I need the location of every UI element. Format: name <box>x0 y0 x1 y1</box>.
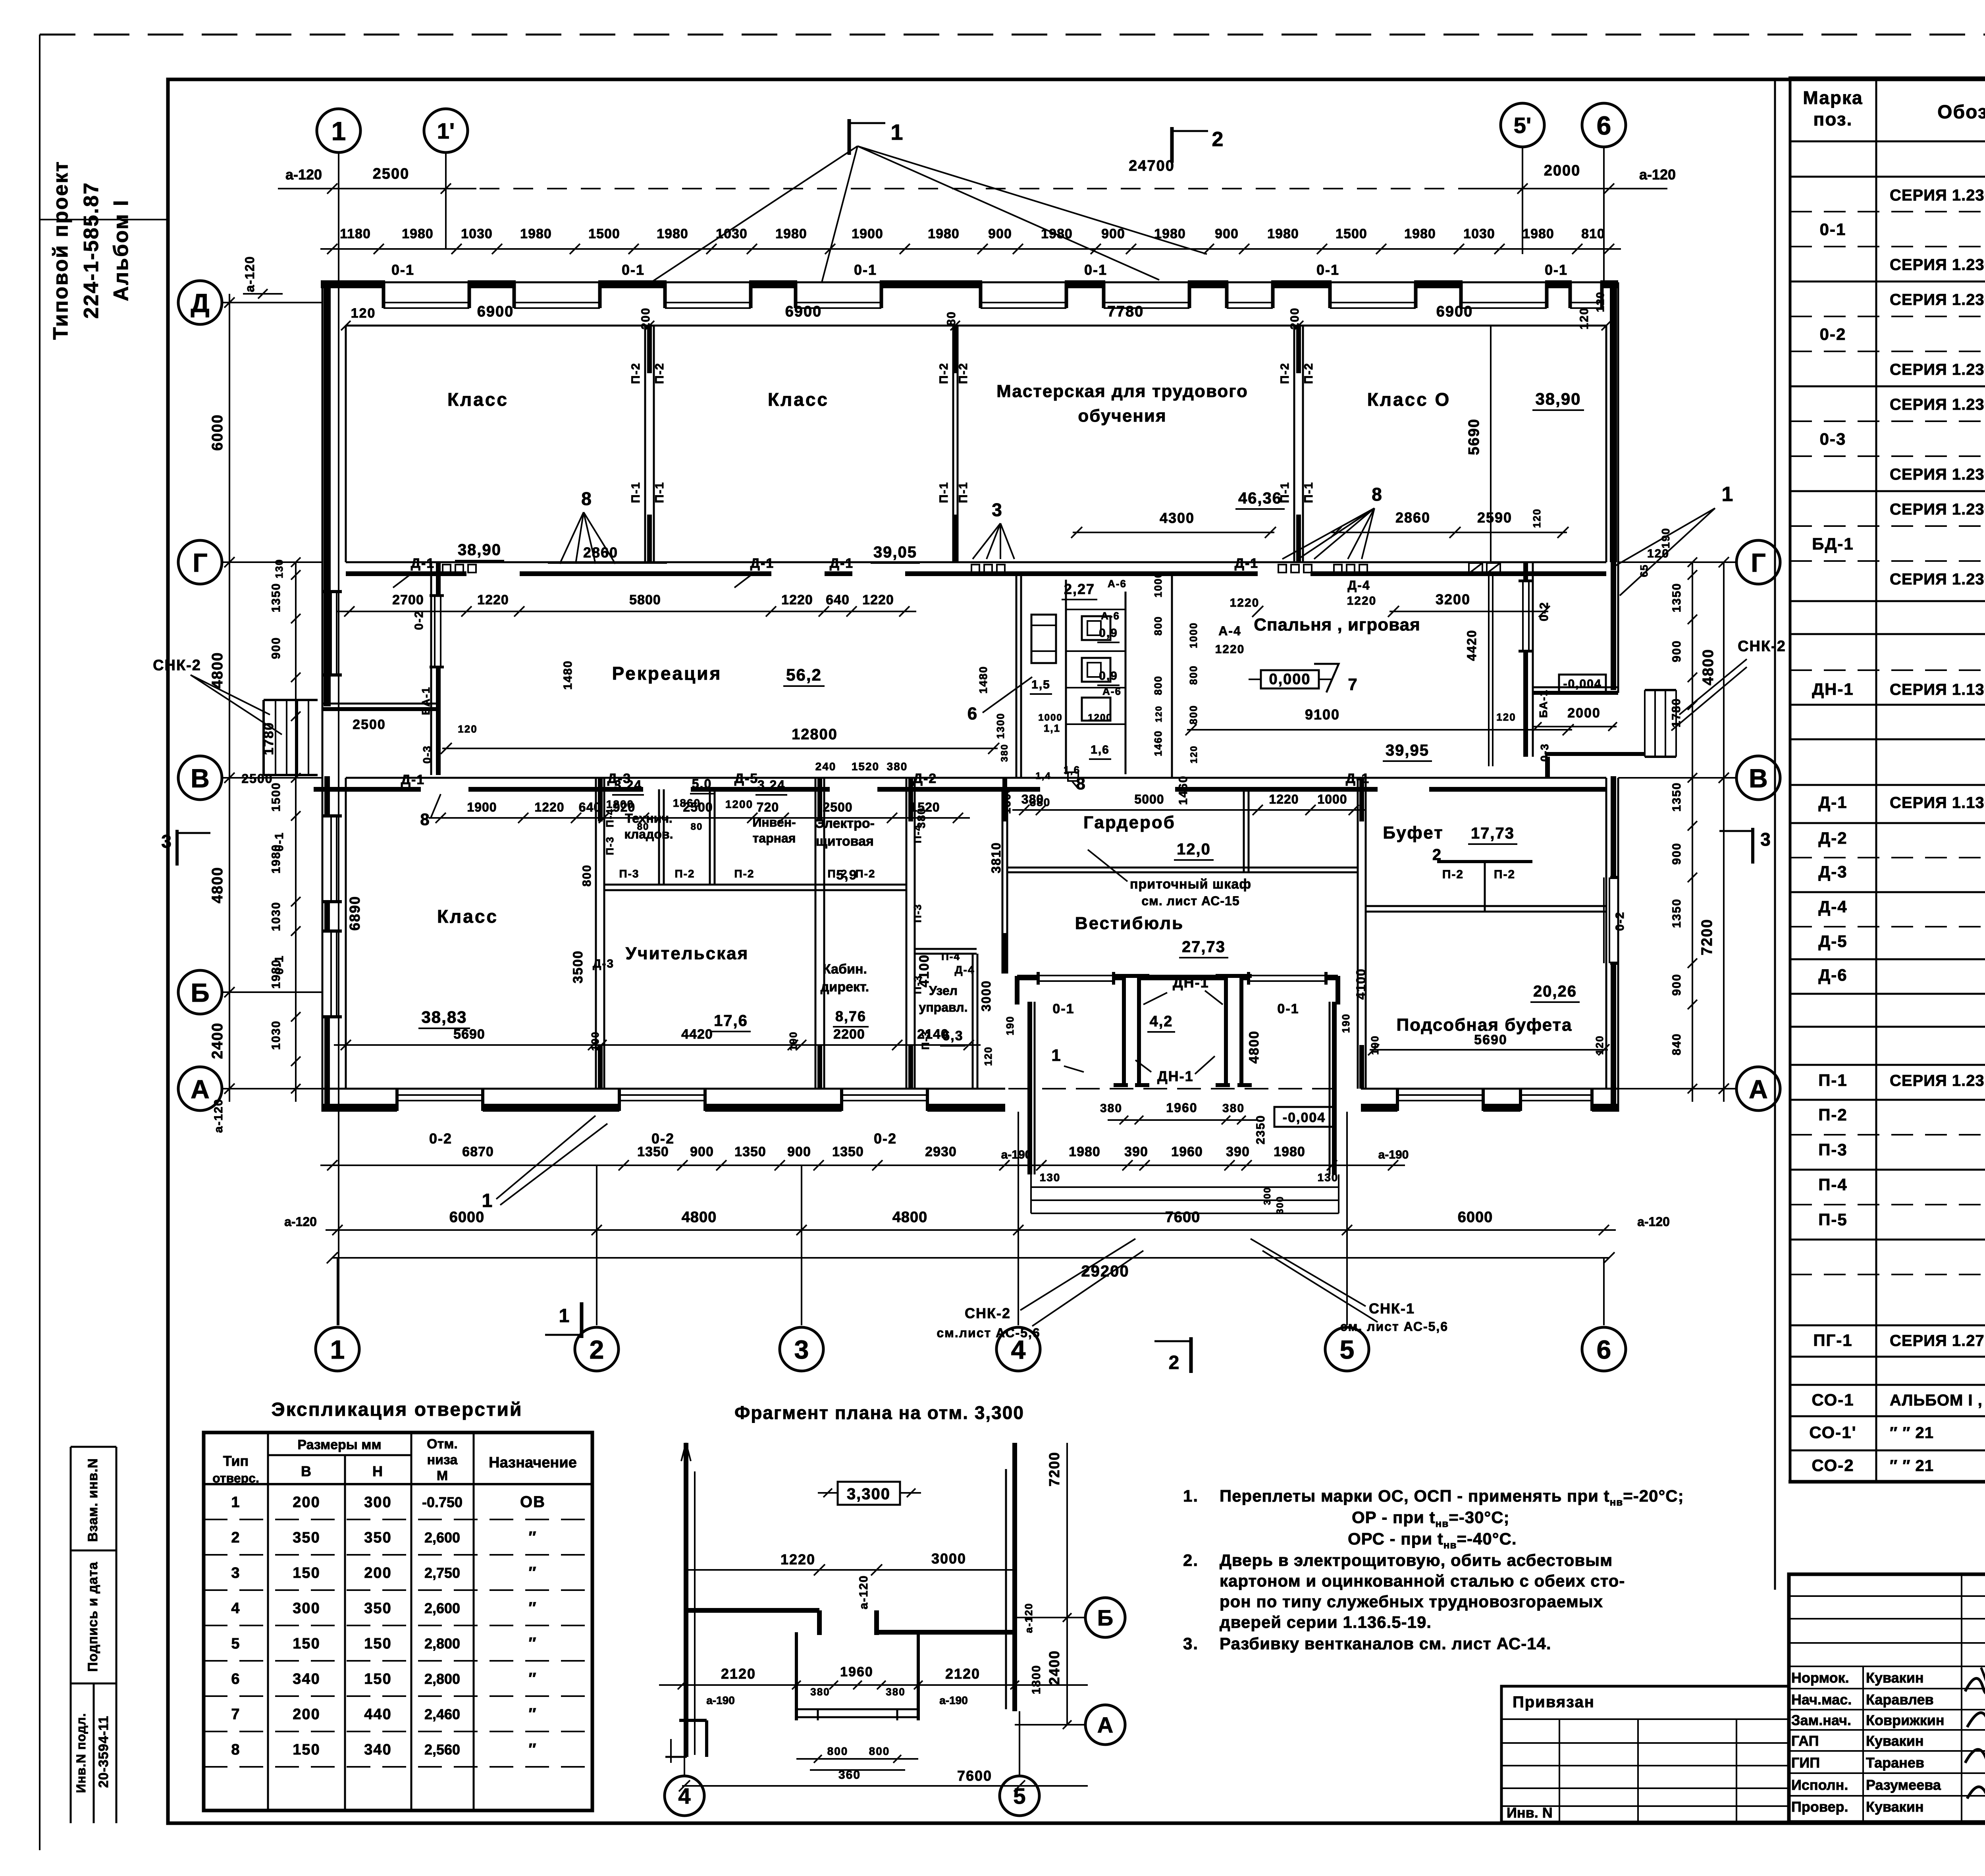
svg-text:190: 190 <box>1340 1013 1352 1033</box>
svg-text:а-120: а-120 <box>1639 166 1676 183</box>
svg-text:2,800: 2,800 <box>424 1635 460 1652</box>
svg-text:см. лист АС-15: см. лист АС-15 <box>1141 894 1239 908</box>
svg-text:Д-2: Д-2 <box>1818 829 1847 847</box>
svg-text:БА-1: БА-1 <box>1537 689 1549 718</box>
svg-text:1980: 1980 <box>1267 226 1299 241</box>
svg-text:3500: 3500 <box>570 950 586 983</box>
svg-text:Кувакин: Кувакин <box>1866 1733 1924 1749</box>
svg-text:120: 120 <box>1531 508 1543 528</box>
svg-text:М: М <box>437 1468 448 1483</box>
svg-text:1960: 1960 <box>840 1664 873 1679</box>
svg-text:Нач.мас.: Нач.мас. <box>1791 1691 1852 1708</box>
svg-text:3000: 3000 <box>931 1550 966 1567</box>
svg-text:П-2: П-2 <box>827 868 848 880</box>
svg-text:директ.: директ. <box>821 979 869 995</box>
svg-text:СЕРИЯ 1.236-6 В.1 Ч.1,2: СЕРИЯ 1.236-6 В.1 Ч.1,2 <box>1890 396 1985 413</box>
svg-text:1300: 1300 <box>1000 786 1013 814</box>
svg-text:800: 800 <box>1187 665 1199 684</box>
svg-text:0-1: 0-1 <box>1084 262 1107 278</box>
svg-text:6: 6 <box>231 1671 240 1687</box>
svg-text:3: 3 <box>1760 829 1771 850</box>
svg-text:20,26: 20,26 <box>1533 983 1577 1000</box>
svg-text:Вестибюль: Вестибюль <box>1075 914 1184 933</box>
svg-text:1000: 1000 <box>1152 571 1164 598</box>
svg-text:″: ″ <box>528 1670 537 1687</box>
svg-text:120: 120 <box>1578 307 1591 330</box>
svg-text:12800: 12800 <box>792 726 838 743</box>
svg-text:СО-1': СО-1' <box>1809 1423 1856 1442</box>
svg-text:СЕРИЯ 1.271-4: СЕРИЯ 1.271-4 <box>1890 1332 1985 1350</box>
svg-text:1980: 1980 <box>928 226 960 241</box>
svg-text:В: В <box>1749 764 1768 793</box>
svg-text:4,2: 4,2 <box>1150 1013 1173 1030</box>
svg-text:3,300: 3,300 <box>847 1485 890 1503</box>
svg-text:9100: 9100 <box>1305 706 1340 723</box>
svg-text:1980: 1980 <box>1404 226 1436 241</box>
svg-text:2860: 2860 <box>583 544 618 561</box>
svg-text:Тип: Тип <box>223 1453 249 1469</box>
svg-text:Класс: Класс <box>768 389 829 410</box>
svg-text:2930: 2930 <box>925 1144 957 1159</box>
svg-text:а-120: а-120 <box>284 1215 317 1229</box>
svg-text:1500: 1500 <box>1336 226 1367 241</box>
svg-text:1350: 1350 <box>270 583 283 613</box>
svg-text:картоном и оцинкованной ста: картоном и оцинкованной сталью с обеих с… <box>1220 1571 1625 1590</box>
svg-text:1030: 1030 <box>461 226 493 241</box>
svg-text:2: 2 <box>231 1529 240 1546</box>
svg-text:Д-5: Д-5 <box>734 771 758 786</box>
svg-text:Д-1: Д-1 <box>1235 556 1258 571</box>
svg-text:2860: 2860 <box>1395 509 1430 526</box>
svg-text:Рекреация: Рекреация <box>612 663 722 684</box>
svg-text:0-1: 0-1 <box>1545 262 1568 278</box>
svg-text:8,76: 8,76 <box>835 1008 866 1024</box>
svg-text:120: 120 <box>1189 745 1199 764</box>
svg-text:0-1: 0-1 <box>1052 1001 1074 1016</box>
svg-text:3: 3 <box>231 1565 240 1581</box>
svg-text:А-4: А-4 <box>1218 624 1241 638</box>
svg-text:Разумеева: Разумеева <box>1866 1777 1941 1793</box>
svg-text:840: 840 <box>1670 1033 1683 1055</box>
svg-text:2,600: 2,600 <box>424 1529 460 1546</box>
svg-text:150: 150 <box>293 1741 320 1758</box>
svg-text:поз.: поз. <box>1813 109 1853 129</box>
svg-text:СО-1: СО-1 <box>1812 1390 1854 1409</box>
svg-text:1: 1 <box>1722 483 1734 506</box>
svg-text:39,05: 39,05 <box>873 544 917 561</box>
svg-text:1460: 1460 <box>1152 730 1164 756</box>
svg-text:1000: 1000 <box>1317 792 1347 806</box>
svg-text:900: 900 <box>1670 974 1683 996</box>
svg-text:Д-3: Д-3 <box>1818 862 1847 881</box>
svg-text:а-190: а-190 <box>1001 1148 1032 1161</box>
svg-text:П-3: П-3 <box>604 836 616 855</box>
svg-text:1350: 1350 <box>1670 782 1683 812</box>
svg-text:2: 2 <box>590 1335 604 1364</box>
svg-text:800: 800 <box>580 864 594 887</box>
svg-text:4800: 4800 <box>892 1209 928 1226</box>
svg-text:2: 2 <box>1212 128 1224 151</box>
svg-text:46,36: 46,36 <box>1238 490 1282 507</box>
svg-text:6870: 6870 <box>462 1144 494 1159</box>
svg-text:1780: 1780 <box>261 722 276 755</box>
svg-text:240: 240 <box>815 760 836 773</box>
svg-text:1520: 1520 <box>852 760 879 773</box>
svg-text:150: 150 <box>364 1671 391 1687</box>
svg-text:5': 5' <box>1514 113 1531 138</box>
svg-text:0-1: 0-1 <box>391 262 414 278</box>
svg-text:АЛЬБОМ I , ЛИСТ 21: АЛЬБОМ I , ЛИСТ 21 <box>1890 1392 1985 1409</box>
svg-text:0,9: 0,9 <box>1099 669 1118 683</box>
svg-text:7600: 7600 <box>1165 1209 1201 1226</box>
svg-text:5,0: 5,0 <box>692 777 712 791</box>
svg-text:3: 3 <box>161 831 172 852</box>
svg-text:а-190: а-190 <box>1378 1148 1409 1161</box>
svg-text:5690: 5690 <box>1466 418 1482 455</box>
svg-text:190: 190 <box>589 1031 601 1051</box>
svg-text:Размеры мм: Размеры мм <box>297 1437 381 1452</box>
svg-text:П-4: П-4 <box>912 824 923 843</box>
svg-text:Кабин.: Кабин. <box>823 962 867 977</box>
svg-text:Г: Г <box>1751 548 1765 577</box>
svg-text:1960: 1960 <box>1171 1144 1203 1159</box>
svg-text:П-2: П-2 <box>855 868 875 880</box>
svg-text:0-1: 0-1 <box>854 262 877 278</box>
svg-text:4420: 4420 <box>681 1027 713 1042</box>
svg-text:150: 150 <box>293 1565 320 1581</box>
svg-text:3,24: 3,24 <box>757 778 785 792</box>
svg-text:П-3: П-3 <box>619 868 639 880</box>
svg-text:Г: Г <box>193 548 207 577</box>
svg-text:1,6: 1,6 <box>1091 743 1110 756</box>
svg-text:ОВ: ОВ <box>520 1493 545 1511</box>
svg-text:1000: 1000 <box>1038 712 1062 723</box>
svg-text:8: 8 <box>420 810 430 829</box>
svg-text:В: В <box>301 1463 312 1479</box>
svg-text:ДН-1: ДН-1 <box>1173 974 1209 991</box>
svg-text:1030: 1030 <box>270 902 283 931</box>
svg-text:1,1: 1,1 <box>1044 722 1060 734</box>
svg-text:П-3: П-3 <box>912 904 923 923</box>
svg-text:П-1: П-1 <box>1818 1071 1848 1089</box>
svg-text:1220: 1220 <box>862 592 894 607</box>
svg-text:440: 440 <box>364 1706 391 1723</box>
svg-text:ОР - при tнв=-30°С;: ОР - при tнв=-30°С; <box>1352 1508 1510 1529</box>
svg-text:Взам. инв.N: Взам. инв.N <box>85 1458 100 1542</box>
svg-text:А: А <box>191 1074 210 1104</box>
svg-text:Д-1: Д-1 <box>750 556 774 571</box>
svg-text:Д-4: Д-4 <box>1347 578 1370 592</box>
svg-text:340: 340 <box>364 1741 391 1758</box>
svg-text:200: 200 <box>364 1565 391 1581</box>
svg-text:1,5: 1,5 <box>1031 678 1050 691</box>
svg-text:2,460: 2,460 <box>424 1706 460 1722</box>
svg-text:120: 120 <box>351 306 376 321</box>
svg-text:130: 130 <box>1318 1171 1339 1184</box>
svg-text:Класс: Класс <box>447 389 509 410</box>
svg-text:2350: 2350 <box>1254 1115 1267 1145</box>
svg-text:1200: 1200 <box>725 798 753 810</box>
svg-text:Д-1: Д-1 <box>411 556 435 571</box>
svg-text:0-2: 0-2 <box>1613 911 1627 931</box>
svg-text:380: 380 <box>999 744 1010 762</box>
svg-text:2200: 2200 <box>833 1027 865 1042</box>
svg-text:24700: 24700 <box>1129 158 1175 174</box>
svg-text:″: ″ <box>528 1599 537 1617</box>
svg-text:4100: 4100 <box>1354 968 1368 999</box>
svg-text:Спальня , игровая: Спальня , игровая <box>1254 615 1420 634</box>
svg-text:а-120: а-120 <box>212 1099 225 1133</box>
svg-text:3.: 3. <box>1183 1634 1199 1653</box>
svg-text:380: 380 <box>1030 796 1051 808</box>
svg-text:20-3594-11: 20-3594-11 <box>96 1716 111 1788</box>
svg-text:Д-3: Д-3 <box>607 771 631 786</box>
svg-text:-0,004: -0,004 <box>1563 677 1601 690</box>
svg-text:Привязан: Привязан <box>1513 1693 1595 1711</box>
svg-text:12,0: 12,0 <box>1177 841 1211 858</box>
svg-text:6: 6 <box>1597 111 1611 140</box>
svg-text:130: 130 <box>273 559 285 578</box>
svg-text:СНК-1: СНК-1 <box>1369 1300 1415 1317</box>
svg-text:Д: Д <box>191 288 209 318</box>
svg-text:2500: 2500 <box>373 166 410 182</box>
svg-text:17,73: 17,73 <box>1471 825 1515 842</box>
svg-text:СЕРИЯ 1.236-6 В.1 Ч.1,2: СЕРИЯ 1.236-6 В.1 Ч.1,2 <box>1890 501 1985 518</box>
svg-text:4: 4 <box>678 1783 690 1809</box>
svg-text:тарная: тарная <box>753 831 796 845</box>
svg-text:″: ″ <box>528 1635 537 1652</box>
svg-text:900: 900 <box>270 637 283 659</box>
svg-text:приточный шкаф: приточный шкаф <box>1130 877 1251 892</box>
svg-text:1: 1 <box>890 120 904 145</box>
svg-text:а-190: а-190 <box>939 1694 968 1706</box>
svg-text:-0,004: -0,004 <box>1283 1110 1326 1125</box>
svg-text:П-2: П-2 <box>937 362 950 384</box>
svg-text:0-2: 0-2 <box>1820 325 1846 343</box>
svg-text:80: 80 <box>945 311 958 326</box>
svg-text:7200: 7200 <box>1699 919 1715 956</box>
svg-text:3: 3 <box>794 1335 809 1364</box>
svg-text:Инв.N подл.: Инв.N подл. <box>74 1713 88 1793</box>
svg-text:1: 1 <box>231 1494 240 1511</box>
svg-text:1220: 1220 <box>1215 643 1245 656</box>
svg-text:1350: 1350 <box>734 1144 766 1159</box>
svg-text:5690: 5690 <box>1474 1032 1507 1047</box>
svg-text:300: 300 <box>293 1600 320 1617</box>
svg-text:2: 2 <box>1169 1352 1180 1373</box>
svg-text:1900: 1900 <box>467 800 497 814</box>
svg-text:2: 2 <box>1432 846 1442 864</box>
svg-text:0-1: 0-1 <box>622 262 645 278</box>
svg-text:П-2: П-2 <box>653 362 666 384</box>
svg-text:0,000: 0,000 <box>1269 671 1310 688</box>
svg-text:1900: 1900 <box>852 226 883 241</box>
svg-text:900: 900 <box>690 1144 714 1159</box>
svg-text:см. лист АС-5,6: см. лист АС-5,6 <box>1340 1319 1448 1334</box>
svg-text:П-3: П-3 <box>912 975 923 994</box>
svg-text:1480: 1480 <box>977 666 989 694</box>
svg-text:рон по типу служебных труд: рон по типу служебных трудновозгораемых <box>1220 1592 1603 1611</box>
svg-text:Марка: Марка <box>1803 87 1863 108</box>
svg-text:2.: 2. <box>1183 1551 1199 1569</box>
svg-text:1220: 1220 <box>477 592 509 607</box>
svg-text:900: 900 <box>787 1144 811 1159</box>
svg-text:1980: 1980 <box>402 226 434 241</box>
svg-text:1,4: 1,4 <box>1035 771 1051 781</box>
svg-text:1350: 1350 <box>832 1144 864 1159</box>
svg-text:6000: 6000 <box>209 414 226 451</box>
svg-text:224-1-585.87: 224-1-585.87 <box>80 181 103 318</box>
svg-text:″ ″ 21: ″ ″ 21 <box>1890 1457 1934 1475</box>
svg-text:300: 300 <box>364 1494 391 1511</box>
svg-text:СЕРИЯ 1.136.5-19: СЕРИЯ 1.136.5-19 <box>1890 681 1985 698</box>
svg-text:2,800: 2,800 <box>424 1671 460 1687</box>
svg-text:А-6: А-6 <box>1108 578 1127 590</box>
svg-text:120: 120 <box>458 723 477 735</box>
svg-text:350: 350 <box>293 1529 320 1546</box>
svg-text:6000: 6000 <box>449 1209 485 1226</box>
svg-text:1220: 1220 <box>1269 792 1299 806</box>
svg-text:ПГ-1: ПГ-1 <box>1813 1331 1852 1350</box>
svg-text:Кувакин: Кувакин <box>1866 1670 1924 1686</box>
svg-text:Узел: Узел <box>929 983 958 998</box>
svg-text:5800: 5800 <box>629 592 661 607</box>
svg-text:190: 190 <box>1004 1016 1016 1035</box>
svg-text:0-3: 0-3 <box>1820 430 1846 448</box>
svg-text:80: 80 <box>691 821 703 832</box>
svg-text:ГАП: ГАП <box>1791 1733 1819 1749</box>
svg-text:0-1: 0-1 <box>1316 262 1339 278</box>
svg-text:а-120: а-120 <box>857 1575 870 1610</box>
svg-text:Кувакин: Кувакин <box>1866 1799 1924 1815</box>
svg-text:0-2: 0-2 <box>429 1130 452 1147</box>
svg-text:1180: 1180 <box>340 226 371 241</box>
svg-text:СЕРИЯ 1.236-6 В.1 Ч.1,2: СЕРИЯ 1.236-6 В.1 Ч.1,2 <box>1890 291 1985 308</box>
svg-text:640: 640 <box>826 592 850 607</box>
svg-text:120: 120 <box>1594 1035 1605 1055</box>
svg-text:810: 810 <box>1581 226 1605 241</box>
svg-text:1980: 1980 <box>1522 226 1554 241</box>
svg-text:1980: 1980 <box>1274 1144 1305 1159</box>
svg-text:П-2: П-2 <box>1494 868 1515 881</box>
svg-text:2,750: 2,750 <box>424 1565 460 1581</box>
svg-text:2400: 2400 <box>1046 1650 1062 1685</box>
svg-text:1480: 1480 <box>561 660 574 690</box>
svg-text:Д-1: Д-1 <box>1346 771 1370 786</box>
svg-text:380: 380 <box>1222 1102 1245 1115</box>
svg-text:190: 190 <box>1369 1035 1381 1055</box>
svg-text:″ ″ 21: ″ ″ 21 <box>1890 1424 1934 1442</box>
svg-text:П-2: П-2 <box>734 868 754 880</box>
svg-text:2000: 2000 <box>1567 706 1601 721</box>
svg-text:56,2: 56,2 <box>786 665 822 684</box>
svg-text:Б: Б <box>1097 1605 1113 1630</box>
svg-text:2,560: 2,560 <box>424 1741 460 1758</box>
svg-text:Исполн.: Исполн. <box>1791 1777 1848 1793</box>
svg-text:-0.750: -0.750 <box>422 1494 463 1510</box>
svg-text:Таранев: Таранев <box>1866 1755 1924 1771</box>
svg-text:СО-2: СО-2 <box>1812 1456 1854 1475</box>
svg-text:6: 6 <box>967 704 978 723</box>
svg-text:1780: 1780 <box>1670 698 1683 728</box>
svg-text:340: 340 <box>293 1671 320 1687</box>
svg-text:120: 120 <box>982 1046 994 1066</box>
svg-text:150: 150 <box>293 1635 320 1652</box>
svg-text:Подсобная буфета: Подсобная буфета <box>1396 1015 1572 1035</box>
svg-text:А: А <box>1097 1712 1113 1737</box>
svg-text:Класс: Класс <box>437 906 498 927</box>
svg-text:П-4: П-4 <box>941 951 960 962</box>
svg-text:СЕРИЯ 1.236.5-9: СЕРИЯ 1.236.5-9 <box>1890 466 1985 483</box>
svg-text:640: 640 <box>579 800 601 814</box>
svg-text:Подпись и дата: Подпись и дата <box>85 1562 100 1672</box>
svg-text:5: 5 <box>1340 1335 1355 1364</box>
svg-text:900: 900 <box>988 226 1012 241</box>
svg-text:1980: 1980 <box>657 226 688 241</box>
svg-text:а-190: а-190 <box>706 1694 735 1706</box>
svg-text:200: 200 <box>293 1494 320 1511</box>
svg-text:Каравлев: Каравлев <box>1866 1691 1934 1708</box>
svg-text:800: 800 <box>1152 675 1164 695</box>
svg-text:а-120: а-120 <box>285 166 322 183</box>
svg-text:Учительская: Учительская <box>626 944 749 963</box>
svg-text:СЕРИЯ 1.236.5-9: СЕРИЯ 1.236.5-9 <box>1890 571 1985 588</box>
svg-text:1000: 1000 <box>1187 622 1199 648</box>
svg-text:2400: 2400 <box>209 1022 226 1059</box>
svg-text:П-2: П-2 <box>1818 1105 1848 1124</box>
svg-text:Гардероб: Гардероб <box>1083 813 1176 832</box>
svg-text:1030: 1030 <box>270 1020 283 1050</box>
svg-text:1200: 1200 <box>606 798 634 810</box>
svg-text:200: 200 <box>293 1706 320 1723</box>
svg-text:ГИП: ГИП <box>1791 1755 1820 1771</box>
svg-text:5690: 5690 <box>453 1027 485 1042</box>
svg-text:БД-1: БД-1 <box>1812 534 1854 553</box>
svg-text:1350: 1350 <box>637 1144 669 1159</box>
svg-text:1350: 1350 <box>1670 898 1683 928</box>
svg-text:СЕРИЯ 1.236.5-9: СЕРИЯ 1.236.5-9 <box>1890 256 1985 274</box>
svg-text:900: 900 <box>1101 226 1125 241</box>
svg-text:дверей серии 1.136.5-19.: дверей серии 1.136.5-19. <box>1220 1613 1432 1631</box>
svg-text:7780: 7780 <box>1107 303 1144 320</box>
svg-text:П-2: П-2 <box>1302 362 1315 384</box>
svg-text:Коврижкин: Коврижкин <box>1866 1712 1945 1728</box>
svg-text:Дверь в электрощитовую, обит: Дверь в электрощитовую, обить асбестовым <box>1220 1551 1613 1569</box>
svg-text:П-2: П-2 <box>629 362 642 384</box>
svg-text:5000: 5000 <box>1134 792 1164 806</box>
svg-text:190: 190 <box>787 1031 799 1051</box>
svg-text:СЕРИЯ 1.236.5-9: СЕРИЯ 1.236.5-9 <box>1890 361 1985 378</box>
svg-text:1: 1 <box>331 116 346 146</box>
svg-text:800: 800 <box>1187 705 1199 724</box>
svg-text:380: 380 <box>887 760 908 773</box>
svg-text:П-2: П-2 <box>957 362 970 384</box>
svg-text:3200: 3200 <box>1436 591 1470 607</box>
svg-text:1800: 1800 <box>1030 1665 1043 1695</box>
svg-text:СНК-2: СНК-2 <box>153 657 201 674</box>
svg-text:П-2: П-2 <box>1278 362 1291 384</box>
svg-text:1200: 1200 <box>1088 712 1112 723</box>
svg-text:380: 380 <box>810 1686 830 1698</box>
svg-text:4: 4 <box>1011 1335 1026 1364</box>
svg-text:390: 390 <box>1124 1144 1148 1159</box>
svg-text:27,73: 27,73 <box>1182 938 1226 956</box>
svg-text:17,6: 17,6 <box>714 1012 748 1030</box>
svg-text:1500: 1500 <box>270 782 283 812</box>
svg-text:БА-1: БА-1 <box>420 686 432 715</box>
svg-text:1: 1 <box>482 1190 493 1211</box>
svg-text:6900: 6900 <box>477 303 514 320</box>
